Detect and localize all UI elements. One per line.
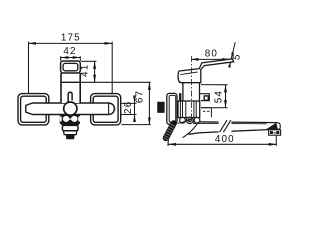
- svg-text:80: 80: [205, 49, 218, 60]
- svg-text:5: 5: [231, 52, 243, 61]
- svg-text:400: 400: [215, 134, 235, 145]
- svg-text:41: 41: [80, 64, 91, 77]
- svg-text:26: 26: [123, 101, 134, 114]
- svg-text:54: 54: [213, 90, 224, 103]
- svg-text:175: 175: [61, 32, 81, 43]
- svg-text:67: 67: [135, 90, 146, 103]
- svg-text:42: 42: [63, 46, 76, 57]
